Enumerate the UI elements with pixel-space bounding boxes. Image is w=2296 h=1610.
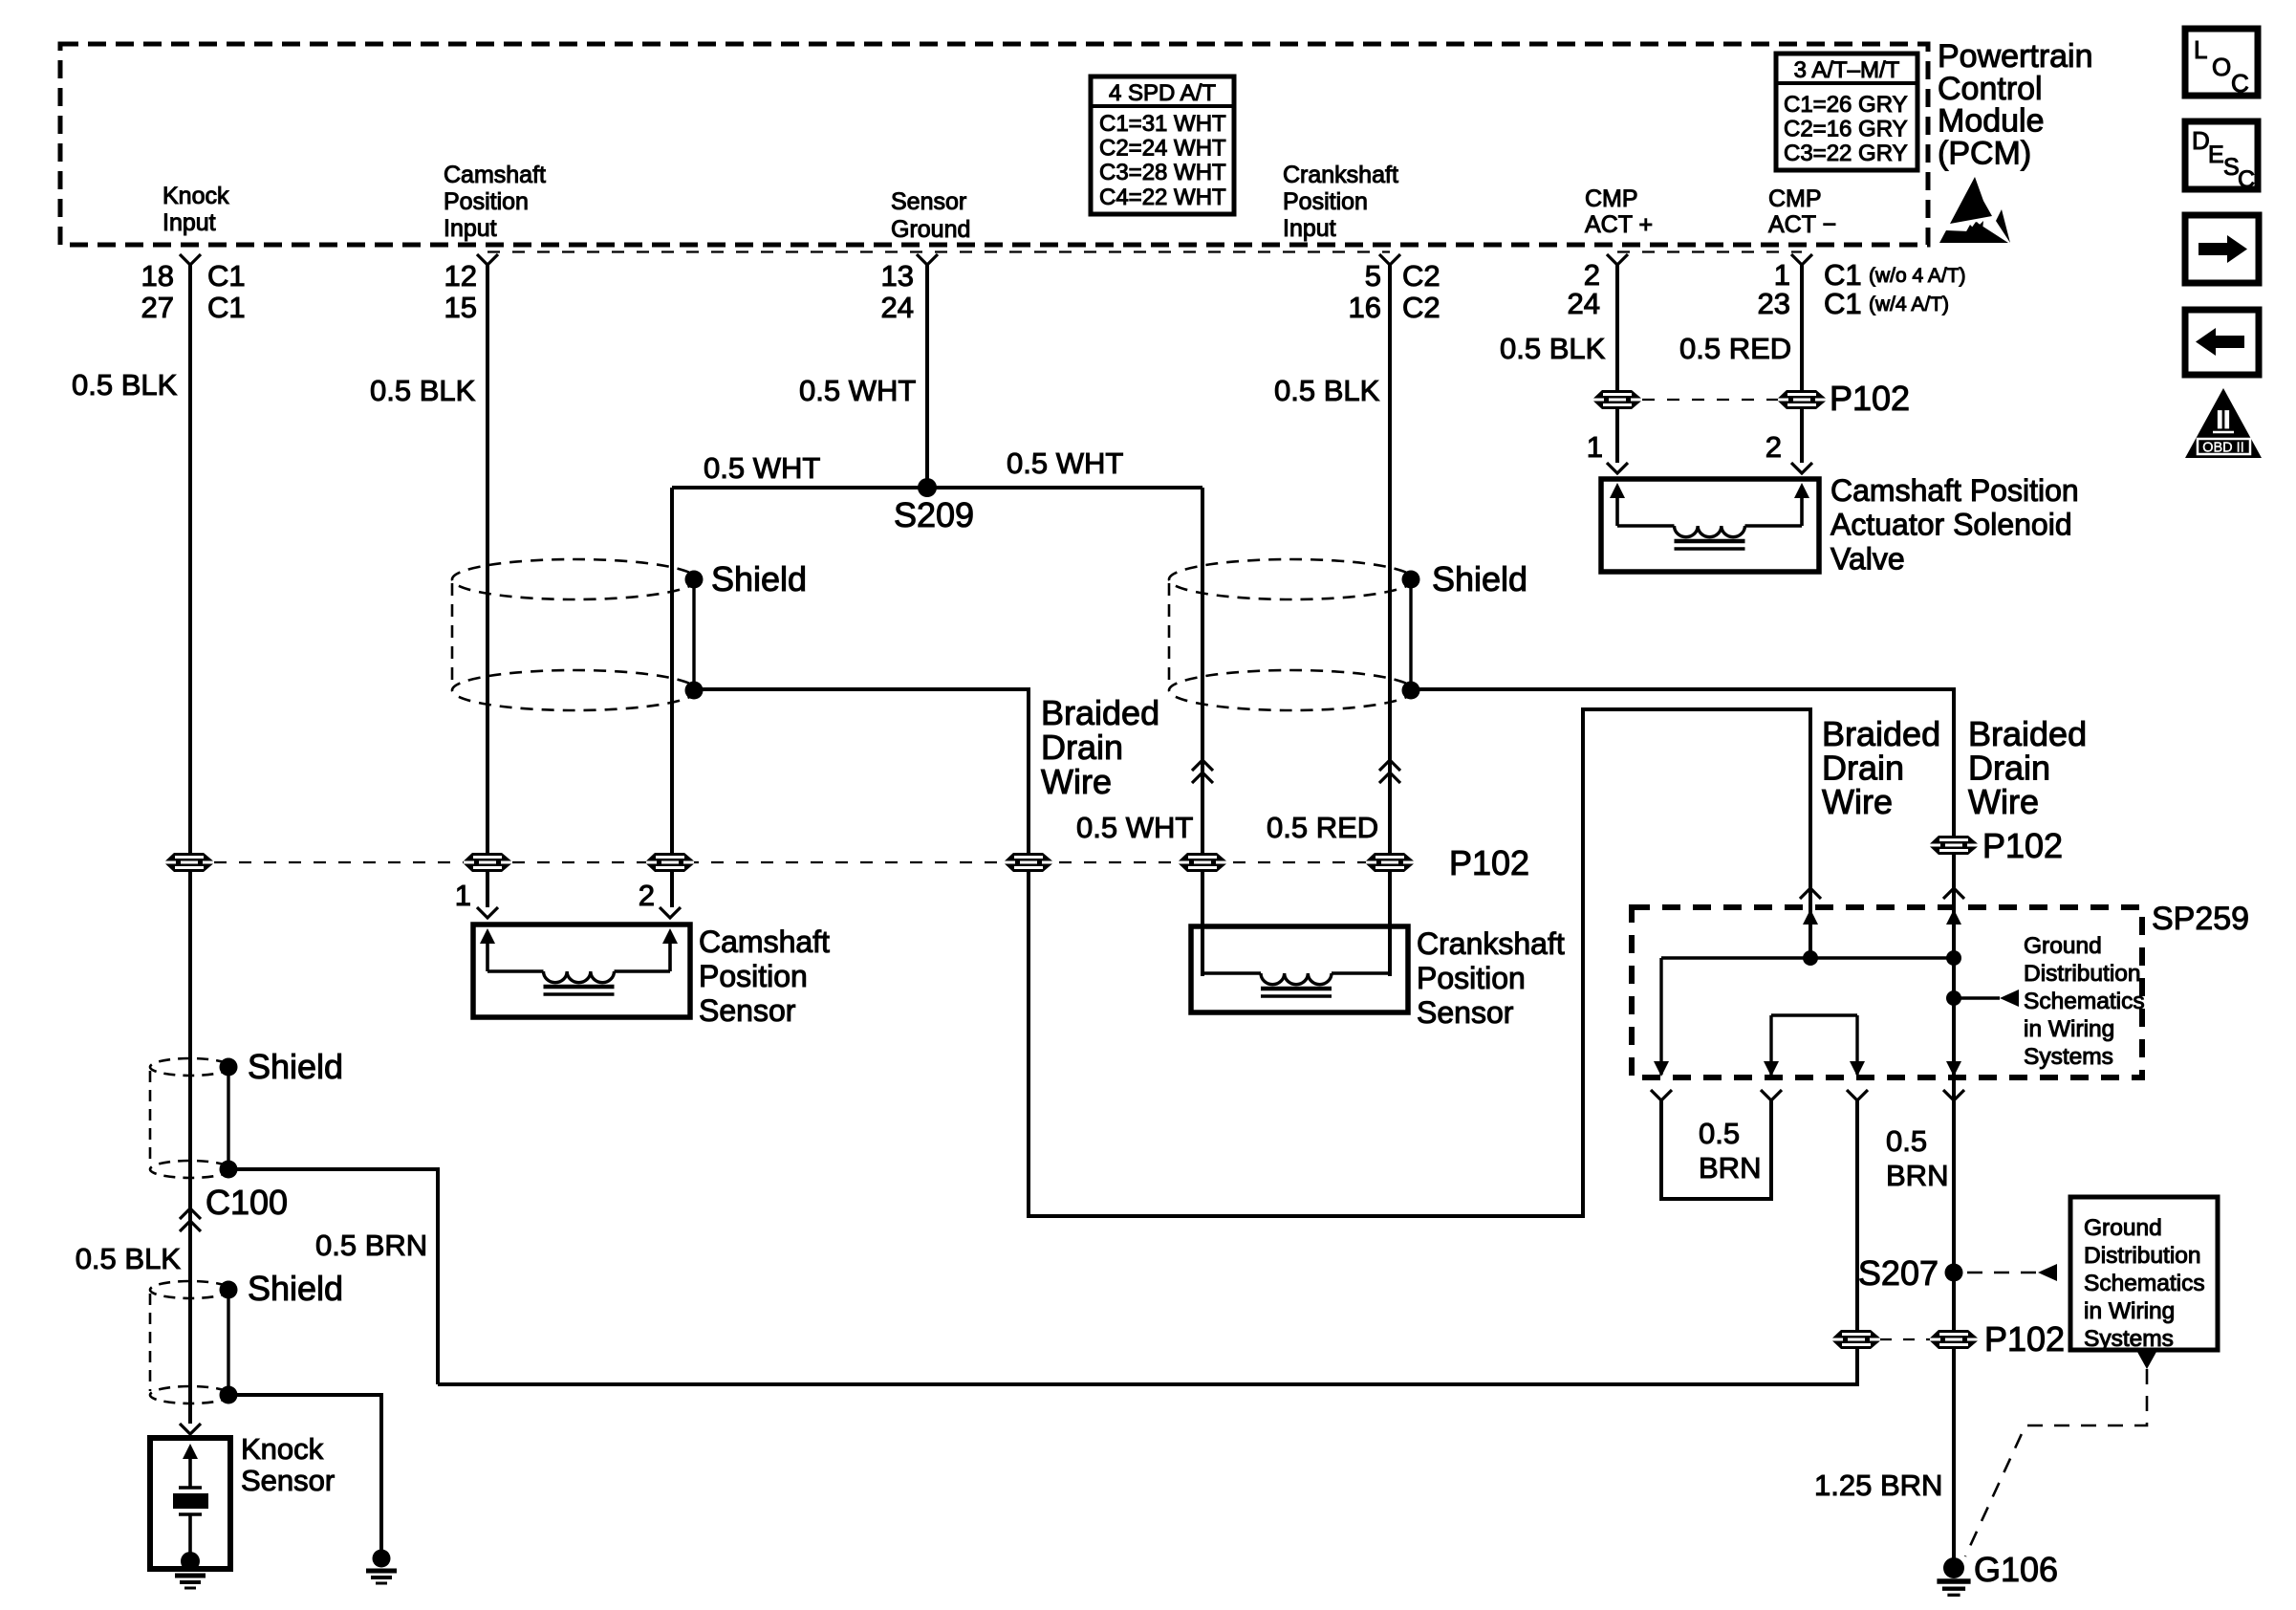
inline connector chevrons 0.5 RED bbox=[1379, 760, 1400, 783]
svg-text:Shield: Shield bbox=[711, 559, 807, 598]
thin dashed harness line (CMP ACT+ to CMP ACT-) bbox=[1617, 250, 1802, 252]
svg-text:SP259: SP259 bbox=[2152, 901, 2249, 937]
svg-text:0.5 BLK: 0.5 BLK bbox=[1500, 332, 1606, 365]
svg-text:4 SPD A/T: 4 SPD A/T bbox=[1109, 80, 1216, 106]
SP259 reference arrow bbox=[2000, 990, 2019, 1007]
camshaft position sensor pin arrow left bbox=[480, 928, 495, 944]
ground symbol (knock sensor) bbox=[175, 1576, 206, 1588]
connector P102 (crank braided drain) bbox=[1930, 836, 1978, 855]
svg-text:0.5 RED: 0.5 RED bbox=[1267, 811, 1378, 844]
LOC legend box bbox=[2185, 29, 2258, 98]
svg-text:Sensor: Sensor bbox=[699, 993, 796, 1028]
svg-text:0.5 BLK: 0.5 BLK bbox=[370, 374, 476, 407]
wire 0.5 RED CMP ACT - bbox=[1800, 265, 1804, 463]
svg-text:CMP: CMP bbox=[1768, 185, 1822, 212]
svg-text:0.5 WHT: 0.5 WHT bbox=[704, 451, 820, 485]
connector P102 (CMP ACT+) bbox=[1593, 390, 1641, 409]
svg-text:Input: Input bbox=[444, 215, 497, 242]
chevron cam sensor pin 1 bbox=[477, 907, 498, 918]
svg-text:Distribution: Distribution bbox=[2024, 961, 2141, 987]
svg-text:Sensor: Sensor bbox=[1417, 995, 1514, 1030]
connector P102 (1.25 BRN) bbox=[1930, 1330, 1978, 1349]
svg-text:OBD II: OBD II bbox=[2202, 441, 2244, 456]
wire 0.5 BLK camshaft position input bbox=[486, 265, 489, 907]
svg-text:Input: Input bbox=[162, 209, 216, 236]
svg-text:G106: G106 bbox=[1974, 1550, 2058, 1589]
braided drain wire from cam shield to SP259 bbox=[694, 689, 1810, 1216]
svg-text:16: 16 bbox=[1349, 291, 1381, 324]
svg-text:P102: P102 bbox=[1982, 826, 2063, 865]
connector C100 chevrons bbox=[180, 1208, 201, 1231]
svg-text:C3=22 GRY: C3=22 GRY bbox=[1784, 141, 1908, 166]
shield ground node bbox=[373, 1550, 391, 1568]
svg-text:Sensor: Sensor bbox=[891, 188, 966, 215]
svg-text:Drain: Drain bbox=[1041, 728, 1123, 767]
svg-text:1: 1 bbox=[455, 879, 471, 912]
pin chevron Camshaft Position Input bbox=[477, 254, 498, 265]
wire 0.5 BLK crankshaft position input bbox=[1388, 265, 1392, 976]
connector P102 (crank red) bbox=[1366, 853, 1414, 872]
svg-text:BRN: BRN bbox=[1699, 1151, 1761, 1185]
svg-text:Input: Input bbox=[1283, 215, 1336, 242]
connector P102 (knock) bbox=[165, 853, 213, 872]
splice S207 bbox=[1945, 1264, 1963, 1282]
cam shield drain link bbox=[692, 579, 695, 690]
SP259 leg 2 bbox=[1769, 1015, 1772, 1075]
svg-text:CMP: CMP bbox=[1585, 185, 1638, 212]
crank shield bottom node bbox=[1402, 682, 1420, 700]
camshaft position sensor pin arrow right bbox=[662, 928, 678, 944]
connector P102 (cam pin2) bbox=[646, 853, 694, 872]
arrow out of SP259 at x=1853 bbox=[1764, 1061, 1779, 1077]
svg-text:D: D bbox=[2192, 126, 2210, 155]
wire 0.5 BLK CMP ACT + bbox=[1615, 265, 1619, 463]
svg-text:Ground: Ground bbox=[2084, 1215, 2162, 1241]
svg-text:(w/o 4 A/T): (w/o 4 A/T) bbox=[1869, 265, 1966, 287]
svg-text:1: 1 bbox=[1587, 430, 1603, 464]
svg-text:S207: S207 bbox=[1858, 1253, 1939, 1293]
SP259 inner jog bbox=[1771, 1013, 1857, 1016]
svg-text:Crankshaft: Crankshaft bbox=[1283, 162, 1398, 188]
svg-text:C2=24 WHT: C2=24 WHT bbox=[1099, 136, 1226, 162]
camshaft position actuator solenoid valve pin arrow right bbox=[1794, 483, 1809, 498]
camshaft position sensor internal circuit bbox=[487, 971, 670, 994]
P102 pass-through dashed row bbox=[189, 861, 1390, 863]
svg-text:Braided: Braided bbox=[1041, 693, 1159, 732]
svg-text:5: 5 bbox=[1365, 259, 1381, 293]
svg-text:BRN: BRN bbox=[1886, 1159, 1948, 1192]
arrow out of SP259 at x=2044 bbox=[1946, 1061, 1961, 1077]
svg-text:II: II bbox=[2216, 405, 2230, 434]
splice S209 bbox=[918, 478, 937, 497]
svg-text:ACT +: ACT + bbox=[1585, 211, 1653, 238]
svg-text:P102: P102 bbox=[1449, 843, 1529, 882]
camshaft position actuator solenoid valve box bbox=[1601, 479, 1819, 572]
camshaft position actuator solenoid valve pin arrow left bbox=[1610, 483, 1625, 498]
svg-text:Wire: Wire bbox=[1822, 782, 1893, 821]
wire 0.5 BRN from shield to long run bbox=[228, 1169, 438, 1384]
svg-text:0.5 BLK: 0.5 BLK bbox=[76, 1242, 182, 1275]
svg-text:C1=31 WHT: C1=31 WHT bbox=[1099, 111, 1226, 137]
knock lower shield cylinder bbox=[150, 1281, 230, 1403]
ground symbol G106 bbox=[1937, 1581, 1970, 1595]
knock lower shield node 2 bbox=[220, 1386, 238, 1404]
svg-text:C: C bbox=[2238, 166, 2255, 193]
knock shield node 1 bbox=[220, 1058, 238, 1077]
chevron above SP259 at x=1894 bbox=[1800, 888, 1821, 899]
svg-text:Position: Position bbox=[444, 188, 529, 215]
svg-text:Crankshaft: Crankshaft bbox=[1417, 926, 1565, 961]
SP259 leg 1 bbox=[1659, 958, 1662, 1075]
arrow out of SP259 at x=1943 bbox=[1850, 1061, 1865, 1077]
svg-text:0.5 BLK: 0.5 BLK bbox=[1274, 374, 1380, 407]
cam shield top node bbox=[685, 571, 704, 589]
svg-text:P102: P102 bbox=[1984, 1319, 2065, 1359]
svg-text:Camshaft: Camshaft bbox=[444, 162, 546, 188]
reference pointer below box bbox=[2137, 1352, 2156, 1369]
wire 0.5 WHT to cam sensor pin 2 bbox=[670, 488, 674, 907]
left arrow legend box bbox=[2185, 310, 2259, 375]
knock sensor piezo element bbox=[179, 1488, 202, 1561]
PCM module dashed outline bbox=[60, 44, 1928, 245]
wire 0.5 BRN U-loop bbox=[1661, 1099, 1771, 1199]
knock shield link bbox=[227, 1067, 229, 1169]
chevron cam sensor pin 2 bbox=[660, 907, 681, 918]
svg-text:Schematics: Schematics bbox=[2024, 989, 2145, 1014]
svg-text:Control: Control bbox=[1938, 71, 2043, 107]
knock sensor box bbox=[150, 1438, 230, 1569]
svg-text:(PCM): (PCM) bbox=[1938, 135, 2031, 171]
svg-text:L: L bbox=[2194, 35, 2207, 64]
svg-text:Actuator Solenoid: Actuator Solenoid bbox=[1830, 508, 2072, 542]
svg-text:Position: Position bbox=[1283, 188, 1368, 215]
OBD II triangle icon bbox=[2185, 388, 2262, 458]
svg-text:Position: Position bbox=[699, 959, 808, 993]
svg-text:24: 24 bbox=[881, 291, 914, 324]
svg-text:13: 13 bbox=[881, 259, 914, 293]
wire from SP259 to C100 shield branch bbox=[438, 1099, 1857, 1384]
connector P102 (CMP ACT-) bbox=[1778, 390, 1826, 409]
cam shield bottom node bbox=[685, 682, 704, 700]
P102 dashed link bottom bbox=[1857, 1338, 1954, 1340]
svg-text:Distribution: Distribution bbox=[2084, 1243, 2201, 1269]
svg-text:15: 15 bbox=[444, 291, 477, 324]
3 A/T-M/T connector table bbox=[1776, 54, 1917, 170]
pin chevron CMP ACT + bbox=[1607, 254, 1628, 265]
SP259 junction lower bbox=[1946, 990, 1961, 1006]
svg-text:Camshaft: Camshaft bbox=[699, 925, 830, 959]
svg-text:C2: C2 bbox=[1402, 291, 1440, 324]
wire 0.5 WHT to crank sensor bbox=[1201, 488, 1204, 976]
svg-text:E: E bbox=[2208, 141, 2224, 168]
knock lower shield node 1 bbox=[220, 1281, 238, 1299]
svg-text:P102: P102 bbox=[1830, 379, 1910, 418]
svg-text:Sensor: Sensor bbox=[241, 1464, 335, 1497]
dashed reference path to G106 bbox=[1965, 1369, 2147, 1556]
ground node G106 bbox=[1943, 1557, 1964, 1578]
svg-text:Position: Position bbox=[1417, 961, 1526, 995]
svg-text:Shield: Shield bbox=[248, 1047, 343, 1086]
svg-text:Powertrain: Powertrain bbox=[1938, 38, 2093, 75]
svg-text:0.5: 0.5 bbox=[1699, 1117, 1740, 1150]
arrow into SP259 at x=1894 bbox=[1803, 909, 1818, 925]
svg-text:0.5 WHT: 0.5 WHT bbox=[799, 374, 916, 407]
knock sensor arrow bbox=[183, 1444, 198, 1459]
connector P102 (cam drain) bbox=[1005, 853, 1052, 872]
svg-text:12: 12 bbox=[444, 259, 477, 293]
svg-text:2: 2 bbox=[1765, 430, 1782, 464]
svg-text:Valve: Valve bbox=[1830, 541, 1905, 576]
svg-text:Schematics: Schematics bbox=[2084, 1271, 2205, 1296]
svg-text:0.5 RED: 0.5 RED bbox=[1679, 332, 1791, 365]
knock sensor ground node bbox=[181, 1552, 200, 1571]
connector P102 (crank wht) bbox=[1179, 853, 1226, 872]
chevron solenoid pin 2 bbox=[1791, 463, 1812, 473]
braided drain wire from crank shield to G106 bbox=[1411, 689, 1954, 1564]
svg-text:Shield: Shield bbox=[248, 1269, 343, 1308]
svg-text:C3=28 WHT: C3=28 WHT bbox=[1099, 160, 1226, 185]
SP259 junction at 1894 bbox=[1803, 950, 1818, 966]
svg-text:Systems: Systems bbox=[2084, 1326, 2174, 1352]
svg-text:C1: C1 bbox=[1824, 287, 1862, 320]
SP259 splice pack dashed box bbox=[1632, 907, 2142, 1077]
arrow out of SP259 at x=1738 bbox=[1654, 1061, 1669, 1077]
inline connector chevrons 0.5 WHT bbox=[1192, 760, 1213, 783]
pin chevron Knock Input bbox=[180, 254, 201, 265]
chevron below SP259 at x=1738 bbox=[1651, 1090, 1672, 1100]
svg-text:Wire: Wire bbox=[1968, 782, 2039, 821]
wire 1.25 BRN to G106 bbox=[1952, 1099, 1956, 1564]
svg-text:27: 27 bbox=[141, 291, 174, 324]
svg-text:Ground: Ground bbox=[891, 216, 970, 243]
arrow into SP259 at x=2044 bbox=[1946, 909, 1961, 925]
ESD sensitivity triangle icon bbox=[1939, 177, 2010, 243]
svg-text:C4=22 WHT: C4=22 WHT bbox=[1099, 185, 1226, 210]
SP259 junction at 2044 bbox=[1946, 950, 1961, 966]
chevron below SP259 at x=2044 bbox=[1943, 1090, 1964, 1100]
crankshaft position sensor pin stubs bbox=[1202, 926, 1390, 973]
knock lower shield link bbox=[227, 1290, 229, 1395]
svg-text:0.5 BRN: 0.5 BRN bbox=[315, 1229, 427, 1262]
pin chevron Crankshaft Position Input bbox=[1379, 254, 1400, 265]
pin chevron CMP ACT - bbox=[1791, 254, 1812, 265]
DESC legend box bbox=[2185, 121, 2258, 193]
knock upper shield cylinder bbox=[150, 1058, 230, 1178]
svg-text:S209: S209 bbox=[894, 495, 974, 534]
camshaft shield cylinder (dashed) bbox=[452, 559, 697, 710]
wire 0.5 BLK knock input bbox=[188, 265, 192, 1424]
crankshaft position sensor internal circuit bbox=[1202, 973, 1390, 996]
shield ground wire bbox=[228, 1395, 381, 1558]
SP259 leg 3 bbox=[1855, 1015, 1858, 1075]
svg-text:ACT −: ACT − bbox=[1768, 211, 1836, 238]
svg-text:O: O bbox=[2212, 53, 2231, 81]
svg-text:C100: C100 bbox=[206, 1183, 288, 1222]
wire 0.5 WHT sensor ground bbox=[925, 265, 929, 488]
svg-text:C: C bbox=[2231, 69, 2249, 98]
svg-text:C2: C2 bbox=[1402, 259, 1440, 293]
svg-text:3 A/T–M/T: 3 A/T–M/T bbox=[1794, 57, 1900, 83]
connector P102 (cam pin1) bbox=[464, 853, 511, 872]
svg-text:1.25 BRN: 1.25 BRN bbox=[1814, 1469, 1942, 1502]
svg-text:Camshaft Position: Camshaft Position bbox=[1830, 473, 2079, 508]
camshaft position actuator solenoid valve internal circuit bbox=[1617, 526, 1802, 549]
svg-text:Knock: Knock bbox=[241, 1432, 324, 1466]
connector P102 (braided drain) bbox=[1832, 1330, 1880, 1349]
svg-text:Shield: Shield bbox=[1432, 559, 1527, 598]
svg-text:Systems: Systems bbox=[2024, 1044, 2113, 1070]
svg-text:Knock: Knock bbox=[162, 183, 229, 209]
wire 0.5 WHT S209 horizontal bbox=[672, 486, 1202, 490]
chevron solenoid pin 1 bbox=[1607, 463, 1628, 473]
svg-text:C1: C1 bbox=[207, 259, 246, 293]
svg-text:(w/4 A/T): (w/4 A/T) bbox=[1869, 294, 1949, 315]
svg-text:C1=26 GRY: C1=26 GRY bbox=[1784, 92, 1908, 118]
4 SPD A/T connector table bbox=[1091, 76, 1234, 214]
camshaft position sensor box bbox=[473, 925, 690, 1017]
svg-text:2: 2 bbox=[639, 879, 655, 912]
crank shield drain link bbox=[1409, 579, 1412, 690]
svg-text:in Wiring: in Wiring bbox=[2084, 1298, 2175, 1324]
S207 reference arrow bbox=[2038, 1264, 2057, 1281]
dashed reference from S207 bbox=[1967, 1272, 2036, 1273]
svg-text:24: 24 bbox=[1568, 287, 1600, 320]
svg-text:Wire: Wire bbox=[1041, 762, 1112, 801]
thin dashed harness line (cam input to crank input) bbox=[487, 250, 1390, 252]
crankshaft shield cylinder (dashed) bbox=[1169, 559, 1414, 710]
right arrow legend box bbox=[2185, 215, 2259, 283]
chevron below SP259 at x=1943 bbox=[1847, 1090, 1868, 1100]
svg-text:in Wiring: in Wiring bbox=[2024, 1016, 2114, 1042]
svg-text:0.5: 0.5 bbox=[1886, 1124, 1927, 1158]
svg-text:Module: Module bbox=[1938, 103, 2045, 140]
svg-text:0.5 BLK: 0.5 BLK bbox=[72, 368, 178, 402]
SP259 internal bus bbox=[1661, 956, 1954, 959]
chevron below SP259 at x=1853 bbox=[1761, 1090, 1782, 1100]
chevron knock sensor pin bbox=[180, 1424, 201, 1434]
svg-text:18: 18 bbox=[141, 259, 174, 293]
ground symbol (shield) bbox=[366, 1571, 397, 1583]
crank shield top node bbox=[1402, 571, 1420, 589]
svg-text:23: 23 bbox=[1758, 287, 1790, 320]
P102 dashed link (CMP row) bbox=[1617, 399, 1802, 401]
SP259 reference stub bbox=[1954, 996, 2000, 999]
knock shield node 2 bbox=[220, 1161, 238, 1179]
svg-text:0.5 WHT: 0.5 WHT bbox=[1076, 811, 1193, 844]
chevron above SP259 at x=2044 bbox=[1943, 888, 1964, 899]
Ground Distribution Schematics reference box bbox=[2070, 1197, 2218, 1350]
pin chevron Sensor Ground bbox=[917, 254, 938, 265]
crankshaft position sensor box bbox=[1191, 926, 1408, 1012]
svg-text:Ground: Ground bbox=[2024, 933, 2102, 959]
svg-text:C1: C1 bbox=[207, 291, 246, 324]
svg-text:0.5 WHT: 0.5 WHT bbox=[1007, 446, 1123, 480]
svg-text:C2=16 GRY: C2=16 GRY bbox=[1784, 117, 1908, 142]
